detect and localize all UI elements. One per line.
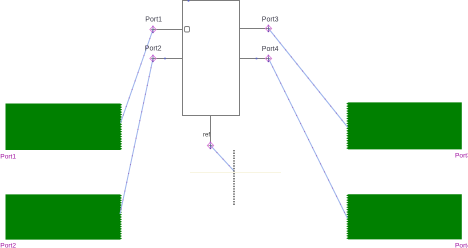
svg-text:Port3: Port3 <box>455 153 468 160</box>
svg-text:Port2: Port2 <box>0 242 16 248</box>
svg-text:Port1: Port1 <box>0 153 16 160</box>
svg-text:Port3: Port3 <box>262 17 279 24</box>
svg-text:ref: ref <box>203 133 210 139</box>
svg-text:Port4: Port4 <box>262 46 279 53</box>
svg-text:Port2: Port2 <box>145 46 162 53</box>
svg-text:Port1: Port1 <box>145 17 162 24</box>
svg-text:Port4: Port4 <box>455 243 468 248</box>
